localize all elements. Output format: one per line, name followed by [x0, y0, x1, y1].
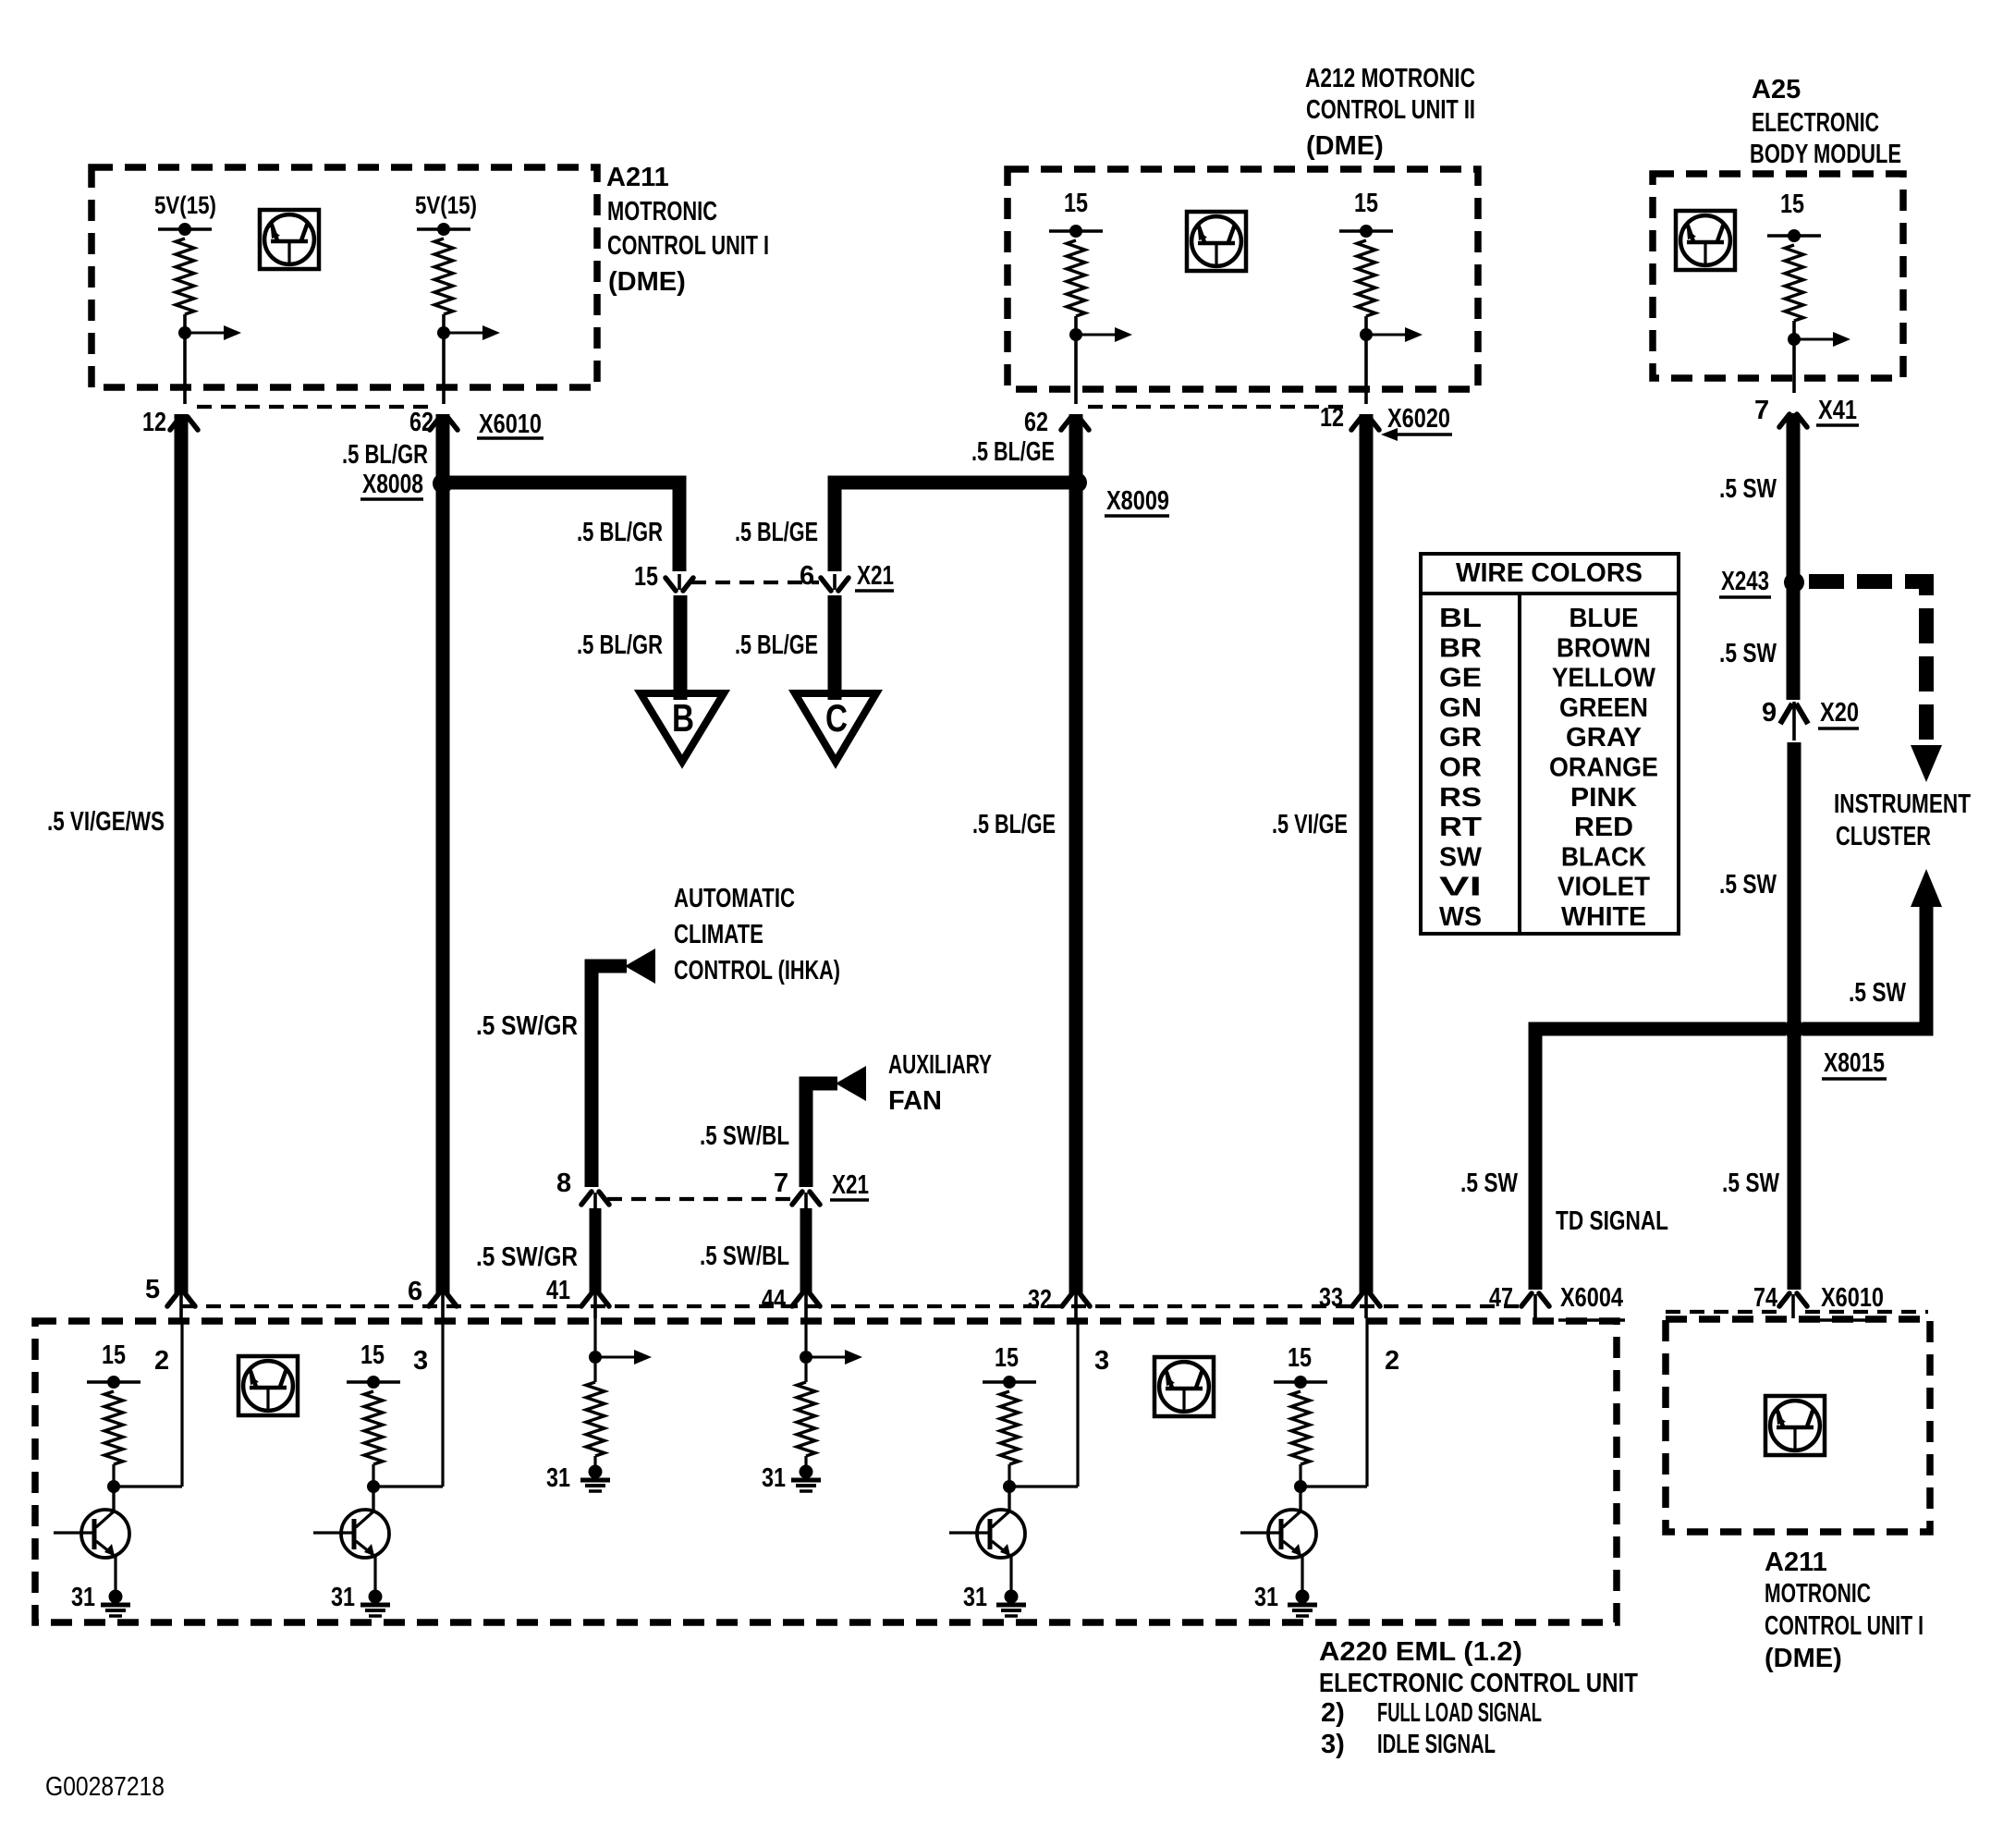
- wire .5 SW/GR to IHKA: [592, 966, 627, 1187]
- svg-text:15: 15: [1780, 190, 1804, 219]
- svg-text:CLUSTER: CLUSTER: [1836, 822, 1931, 851]
- resistor to 15: [983, 1380, 1036, 1384]
- transistor icon A220 left: [238, 1356, 298, 1415]
- svg-text:62: 62: [409, 408, 434, 437]
- svg-text:47: 47: [1489, 1283, 1513, 1313]
- svg-text:9: 9: [1762, 698, 1777, 728]
- svg-text:AUTOMATIC: AUTOMATIC: [674, 884, 795, 913]
- svg-text:G00287218: G00287218: [45, 1772, 165, 1802]
- svg-text:PINK: PINK: [1570, 783, 1637, 813]
- wire .5 VI/GE/WS pin12 to pin5: [175, 414, 189, 1294]
- svg-text:ELECTRONIC CONTROL UNIT: ELECTRONIC CONTROL UNIT: [1319, 1669, 1638, 1698]
- svg-text:3): 3): [1321, 1730, 1345, 1759]
- svg-text:.5 BL/GR: .5 BL/GR: [577, 630, 663, 660]
- svg-text:15: 15: [995, 1343, 1019, 1373]
- output transistor: [977, 1510, 1025, 1558]
- svg-text:GREEN: GREEN: [1559, 693, 1648, 723]
- svg-text:AUXILIARY: AUXILIARY: [888, 1050, 992, 1080]
- wire .5 VI/GE pin12 to pin33: [1360, 414, 1374, 1294]
- transistor icon U-A25: [1676, 211, 1735, 270]
- connector line X6010: [197, 405, 431, 409]
- svg-text:BLUE: BLUE: [1569, 604, 1639, 633]
- svg-text:BODY MODULE: BODY MODULE: [1750, 140, 1901, 169]
- wire pin12 internal: [183, 333, 187, 404]
- junction X8015: [1784, 1019, 1804, 1039]
- wire .5 SW X8015 to pin74: [1788, 1035, 1801, 1290]
- svg-text:15: 15: [1288, 1343, 1312, 1373]
- svg-text:5V(15): 5V(15): [154, 191, 216, 219]
- svg-text:7: 7: [774, 1169, 788, 1198]
- svg-text:(DME): (DME): [1306, 131, 1384, 161]
- wire .5 SW/BL pin7 to pin44: [800, 1208, 812, 1294]
- wire .5 BL/GR pin62 to pin6: [436, 414, 450, 1294]
- svg-text:RS: RS: [1439, 783, 1482, 813]
- svg-text:.5 VI/GE: .5 VI/GE: [1272, 810, 1348, 839]
- wire TD signal X8015 to pin47: [1535, 1029, 1786, 1290]
- svg-text:BROWN: BROWN: [1557, 633, 1651, 663]
- svg-text:WIRE COLORS: WIRE COLORS: [1456, 558, 1643, 588]
- wire .5 BL/GE pin62 to pin32: [1069, 414, 1083, 1294]
- output transistor: [341, 1510, 389, 1558]
- junction X243: [1784, 572, 1804, 593]
- svg-text:A25: A25: [1752, 75, 1801, 104]
- svg-text:.5 VI/GE/WS: .5 VI/GE/WS: [47, 807, 165, 837]
- svg-text:X6010: X6010: [1821, 1283, 1884, 1313]
- output transistor: [1268, 1510, 1316, 1558]
- svg-text:3: 3: [1094, 1346, 1109, 1376]
- svg-text:.5 SW: .5 SW: [1719, 870, 1777, 900]
- ground 31: [109, 1590, 123, 1604]
- svg-text:X41: X41: [1818, 396, 1857, 425]
- ground 31: [369, 1590, 383, 1604]
- transistor icon U-A211: [260, 210, 319, 269]
- svg-text:GRAY: GRAY: [1566, 723, 1642, 753]
- svg-text:A212 MOTRONIC: A212 MOTRONIC: [1305, 64, 1475, 93]
- svg-text:INSTRUMENT: INSTRUMENT: [1834, 789, 1971, 819]
- transistor icon U-A212: [1187, 212, 1246, 271]
- wire .5 SW X243 to X20: [1787, 588, 1801, 700]
- dashed wire X243 to instrument cluster: [1809, 581, 1926, 740]
- svg-text:OR: OR: [1439, 753, 1482, 783]
- wire .5 SW/BL to auxiliary fan: [806, 1083, 837, 1187]
- wire pin12 internal A212: [1364, 335, 1368, 404]
- splice triangle B: [641, 693, 724, 762]
- splice triangle C: [795, 693, 876, 762]
- svg-text:TD SIGNAL: TD SIGNAL: [1556, 1206, 1668, 1236]
- connector line X6010 bottom: [1666, 1310, 1782, 1314]
- svg-text:X6004: X6004: [1560, 1283, 1623, 1313]
- svg-text:15: 15: [1354, 189, 1378, 218]
- svg-text:3: 3: [413, 1346, 428, 1376]
- svg-text:B: B: [672, 696, 694, 740]
- transistor icon A211 bottom: [1765, 1396, 1825, 1455]
- svg-text:CLIMATE: CLIMATE: [674, 920, 763, 949]
- connector line X21 15-6: [691, 581, 819, 584]
- svg-text:31: 31: [762, 1463, 786, 1493]
- svg-text:A211: A211: [1765, 1548, 1827, 1577]
- svg-text:.5 BL/GE: .5 BL/GE: [972, 810, 1056, 839]
- svg-text:SW: SW: [1439, 842, 1483, 872]
- svg-text:CONTROL (IHKA): CONTROL (IHKA): [674, 956, 840, 985]
- svg-text:5V(15): 5V(15): [415, 191, 477, 219]
- control unit A211 DME box: [92, 167, 597, 387]
- connector line X6020: [1088, 405, 1352, 409]
- svg-text:MOTRONIC: MOTRONIC: [1765, 1579, 1871, 1609]
- wire X8009 to X21 pin6: [835, 483, 1070, 571]
- svg-text:GR: GR: [1439, 723, 1482, 753]
- svg-text:GN: GN: [1439, 693, 1482, 723]
- wire X8008 to X21 pin15: [449, 483, 679, 571]
- svg-text:X20: X20: [1820, 698, 1859, 728]
- svg-text:C: C: [825, 696, 848, 740]
- svg-text:.5 SW: .5 SW: [1460, 1169, 1518, 1198]
- wire pin62 internal A212: [1074, 335, 1078, 404]
- svg-text:44: 44: [762, 1285, 786, 1315]
- svg-text:CONTROL UNIT I: CONTROL UNIT I: [1765, 1611, 1924, 1641]
- svg-text:31: 31: [963, 1583, 987, 1612]
- svg-text:.5 SW: .5 SW: [1722, 1169, 1779, 1198]
- resistor circuit pin41: [593, 1318, 596, 1351]
- svg-text:.5 SW/BL: .5 SW/BL: [700, 1242, 789, 1271]
- svg-text:15: 15: [1064, 189, 1088, 218]
- svg-text:CONTROL UNIT II: CONTROL UNIT II: [1306, 95, 1475, 125]
- svg-text:6: 6: [800, 561, 814, 591]
- svg-text:.5 BL/GR: .5 BL/GR: [342, 440, 428, 470]
- svg-text:YELLOW: YELLOW: [1552, 664, 1656, 693]
- svg-text:.5 BL/GE: .5 BL/GE: [971, 437, 1055, 467]
- svg-text:12: 12: [142, 408, 166, 437]
- svg-text:.5 SW: .5 SW: [1719, 639, 1777, 668]
- resistor to 15: [347, 1380, 400, 1384]
- svg-text:X8008: X8008: [362, 470, 423, 499]
- svg-text:BL: BL: [1439, 604, 1482, 633]
- control unit A211 DME bottom box: [1666, 1319, 1930, 1532]
- svg-text:7: 7: [1754, 396, 1769, 425]
- svg-text:2: 2: [1385, 1346, 1399, 1376]
- junction X8008: [433, 473, 453, 494]
- svg-text:BR: BR: [1439, 633, 1482, 663]
- wire .5 BL/GR to triangle B: [674, 595, 688, 700]
- control unit A220 EML box: [35, 1321, 1617, 1622]
- svg-text:15: 15: [360, 1340, 385, 1370]
- svg-text:33: 33: [1319, 1283, 1343, 1313]
- wire colors legend table: [1421, 554, 1679, 934]
- svg-text:ELECTRONIC: ELECTRONIC: [1752, 108, 1879, 138]
- svg-text:RED: RED: [1574, 813, 1633, 842]
- resistor circuit pin44: [804, 1318, 807, 1351]
- wire .5 BL/GE to triangle C: [828, 595, 842, 700]
- svg-text:WHITE: WHITE: [1561, 902, 1646, 932]
- ground 31: [1005, 1590, 1019, 1604]
- svg-text:X8015: X8015: [1824, 1048, 1885, 1078]
- svg-text:MOTRONIC: MOTRONIC: [607, 197, 717, 226]
- svg-text:74: 74: [1753, 1283, 1777, 1313]
- wire pin62 internal: [442, 333, 446, 404]
- svg-text:5: 5: [145, 1275, 160, 1304]
- output transistor: [81, 1510, 129, 1558]
- connector line X21 8-7: [607, 1197, 793, 1201]
- svg-text:.5 SW/GR: .5 SW/GR: [476, 1011, 578, 1041]
- svg-text:31: 31: [71, 1583, 95, 1612]
- svg-text:VI: VI: [1439, 873, 1482, 902]
- svg-text:.5 SW/GR: .5 SW/GR: [476, 1242, 578, 1272]
- svg-text:X21: X21: [857, 561, 894, 591]
- svg-text:(DME): (DME): [608, 267, 686, 297]
- wire .5 SW pin7 to X243: [1787, 415, 1801, 578]
- svg-text:.5 SW: .5 SW: [1719, 474, 1777, 504]
- svg-text:2: 2: [154, 1346, 169, 1376]
- svg-text:6: 6: [408, 1277, 422, 1306]
- wire pin7 internal: [1792, 339, 1796, 393]
- svg-text:CONTROL UNIT I: CONTROL UNIT I: [607, 231, 769, 261]
- svg-text:FAN: FAN: [888, 1086, 942, 1116]
- transistor icon A220 right: [1154, 1357, 1214, 1416]
- ground 31: [1296, 1590, 1310, 1604]
- wire .5 SW/GR pin8 to pin41: [590, 1208, 602, 1294]
- svg-text:41: 41: [546, 1276, 570, 1305]
- svg-text:15: 15: [102, 1340, 126, 1370]
- svg-text:X21: X21: [832, 1170, 869, 1200]
- svg-text:VIOLET: VIOLET: [1557, 873, 1650, 902]
- wire .5 SW X20 to X8015: [1788, 742, 1801, 1023]
- svg-text:WS: WS: [1439, 902, 1482, 932]
- svg-text:.5 BL/GE: .5 BL/GE: [735, 630, 818, 660]
- svg-text:BLACK: BLACK: [1561, 842, 1646, 872]
- wire arrow to instrument cluster from X8015: [1911, 869, 1942, 907]
- svg-text:31: 31: [331, 1583, 355, 1612]
- svg-text:62: 62: [1024, 408, 1048, 437]
- svg-text:.5 SW: .5 SW: [1849, 978, 1906, 1008]
- svg-text:X8009: X8009: [1106, 486, 1169, 516]
- svg-text:(DME): (DME): [1765, 1644, 1842, 1673]
- connector X21 pin 6: [821, 578, 849, 591]
- control unit A212 DME box: [1008, 169, 1478, 389]
- svg-text:32: 32: [1028, 1285, 1052, 1315]
- svg-text:A220 EML (1.2): A220 EML (1.2): [1319, 1637, 1522, 1667]
- svg-text:.5 SW/BL: .5 SW/BL: [700, 1121, 789, 1151]
- svg-text:IDLE SIGNAL: IDLE SIGNAL: [1377, 1730, 1496, 1759]
- svg-text:2): 2): [1321, 1698, 1345, 1728]
- resistor to 15: [87, 1380, 140, 1384]
- svg-text:31: 31: [546, 1463, 570, 1493]
- svg-text:A211: A211: [606, 163, 669, 192]
- svg-text:8: 8: [556, 1169, 571, 1198]
- svg-text:FULL LOAD SIGNAL: FULL LOAD SIGNAL: [1377, 1698, 1542, 1728]
- junction X8009: [1067, 472, 1087, 493]
- svg-text:.5 BL/GR: .5 BL/GR: [577, 518, 663, 547]
- connector line X6004 row: [182, 1304, 1523, 1308]
- svg-text:X6010: X6010: [479, 410, 542, 439]
- svg-text:15: 15: [634, 562, 658, 592]
- svg-text:ORANGE: ORANGE: [1549, 753, 1658, 783]
- svg-text:GE: GE: [1439, 664, 1482, 693]
- svg-text:RT: RT: [1439, 813, 1482, 842]
- svg-text:X243: X243: [1721, 567, 1769, 596]
- svg-text:.5 BL/GE: .5 BL/GE: [735, 518, 818, 547]
- electronic body module A25 box: [1653, 174, 1903, 378]
- svg-text:31: 31: [1254, 1583, 1278, 1612]
- resistor to 15: [1274, 1380, 1327, 1384]
